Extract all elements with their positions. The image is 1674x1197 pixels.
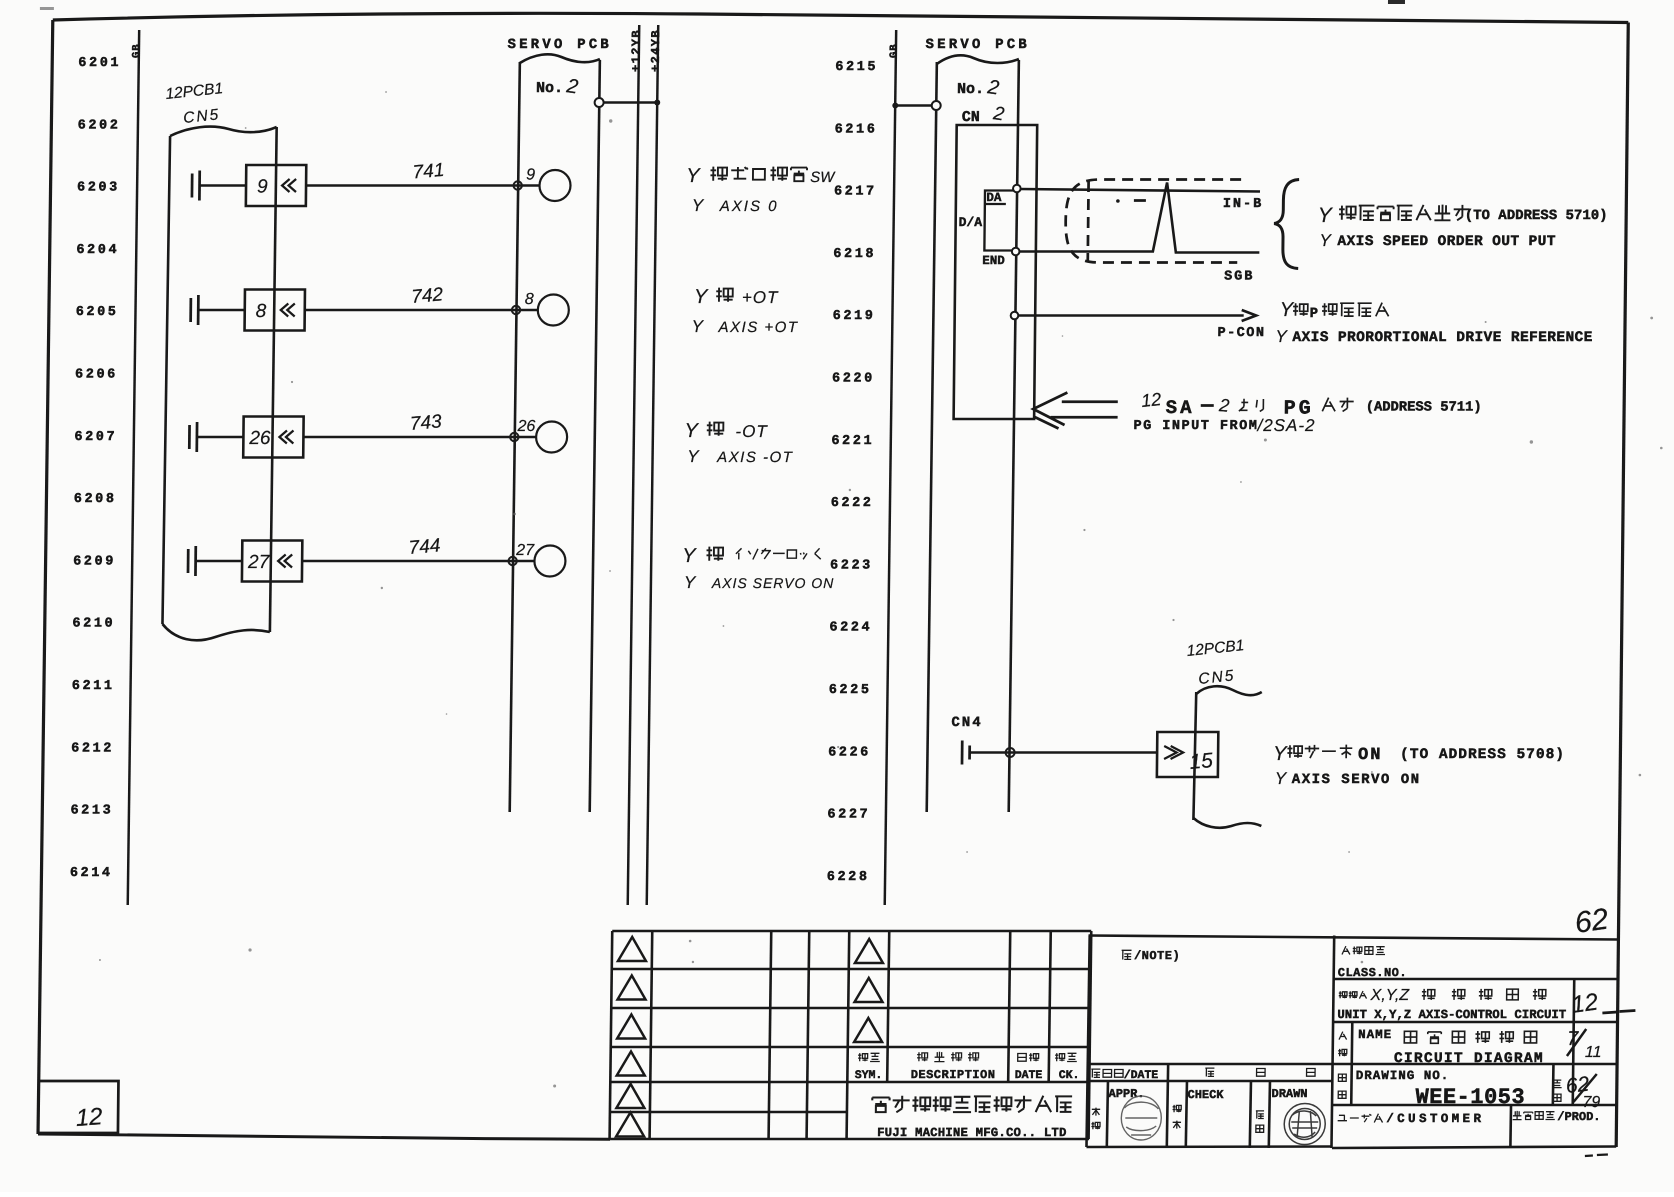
svg-text:SYM.: SYM. (855, 1069, 883, 1082)
svg-text:8: 8 (525, 291, 534, 308)
svg-text:(TO ADDRESS 5708): (TO ADDRESS 5708) (1400, 747, 1565, 763)
svg-text:6211: 6211 (72, 679, 115, 694)
svg-text:6227: 6227 (827, 808, 870, 823)
svg-text:6201: 6201 (78, 56, 121, 71)
svg-text:CN: CN (962, 109, 980, 126)
svg-text:744: 744 (408, 535, 441, 559)
svg-text:FUJI MACHINE MFG.CO.. LTD: FUJI MACHINE MFG.CO.. LTD (877, 1126, 1067, 1140)
svg-text:6215: 6215 (835, 60, 878, 75)
svg-text:6221: 6221 (831, 434, 874, 449)
svg-text:6213: 6213 (70, 804, 113, 819)
svg-text:12: 12 (1570, 988, 1600, 1018)
svg-text:Y: Y (1275, 769, 1288, 788)
svg-text:P: P (1310, 306, 1319, 322)
svg-text:6224: 6224 (829, 621, 872, 636)
svg-text:SERVO PCB: SERVO PCB (507, 37, 612, 53)
svg-text:27: 27 (247, 552, 271, 573)
svg-text:CIRCUIT DIAGRAM: CIRCUIT DIAGRAM (1394, 1051, 1544, 1067)
svg-text:8: 8 (256, 301, 267, 322)
svg-text:26: 26 (248, 428, 271, 449)
svg-text:27: 27 (515, 542, 535, 559)
svg-text:X,Y,Z: X,Y,Z (1369, 987, 1410, 1004)
svg-text:11: 11 (1585, 1044, 1602, 1061)
svg-text:Y: Y (686, 165, 701, 187)
svg-text:AXIS PRORORTIONAL DRIVE REFERE: AXIS PRORORTIONAL DRIVE REFERENCE (1292, 330, 1593, 346)
svg-text:/NOTE): /NOTE) (1134, 949, 1180, 963)
svg-text:GB: GB (888, 43, 900, 58)
svg-text:IN-B: IN-B (1223, 197, 1264, 212)
svg-text:Y: Y (682, 545, 697, 567)
svg-text:GB: GB (131, 43, 143, 58)
svg-text:742: 742 (411, 284, 445, 308)
svg-text:(TO ADDRESS 5710): (TO ADDRESS 5710) (1465, 208, 1608, 224)
svg-text:+24YB: +24YB (649, 29, 663, 72)
svg-text:Y: Y (684, 573, 697, 592)
svg-text:CLASS.NO.: CLASS.NO. (1338, 966, 1407, 980)
svg-text:6210: 6210 (72, 617, 115, 632)
svg-text:DATE: DATE (1015, 1069, 1043, 1082)
svg-text:NAME: NAME (1358, 1028, 1392, 1042)
svg-text:SERVO PCB: SERVO PCB (925, 37, 1030, 53)
svg-text:CN4: CN4 (951, 715, 982, 731)
svg-text:DRAWN: DRAWN (1271, 1087, 1307, 1101)
svg-text:6205: 6205 (76, 305, 119, 320)
svg-text:SW: SW (810, 169, 836, 186)
svg-text:62: 62 (1573, 903, 1611, 940)
svg-text:UNIT X,Y,Z AXIS-CONTROL CIRCUI: UNIT X,Y,Z AXIS-CONTROL CIRCUIT (1337, 1008, 1567, 1022)
svg-text:/PROD.: /PROD. (1557, 1110, 1600, 1124)
svg-text:2: 2 (1217, 395, 1230, 416)
svg-text:P-CON: P-CON (1217, 326, 1265, 341)
svg-text:DESCRIPTION: DESCRIPTION (911, 1068, 996, 1082)
svg-text:DRAWING NO.: DRAWING NO. (1356, 1069, 1450, 1083)
svg-text:6226: 6226 (828, 745, 871, 760)
svg-text:6202: 6202 (78, 118, 121, 133)
svg-text:+OT: +OT (742, 288, 779, 307)
svg-text:Y: Y (692, 196, 705, 215)
svg-text:SGB: SGB (1224, 270, 1254, 285)
svg-text:CK.: CK. (1059, 1069, 1080, 1082)
svg-text:ON: ON (1358, 746, 1383, 765)
svg-text:CHECK: CHECK (1187, 1088, 1224, 1102)
svg-text:6216: 6216 (835, 122, 878, 137)
svg-text:6212: 6212 (71, 741, 114, 756)
svg-text:26: 26 (516, 418, 535, 435)
svg-text:PG INPUT FROM: PG INPUT FROM (1133, 419, 1258, 434)
svg-text:6228: 6228 (827, 870, 870, 885)
svg-text:AXIS 0: AXIS 0 (719, 198, 779, 215)
svg-text:6218: 6218 (833, 247, 876, 262)
svg-text:Y: Y (1280, 299, 1295, 321)
svg-text:Y: Y (1319, 231, 1332, 250)
svg-text:Y: Y (694, 286, 709, 308)
svg-text:12: 12 (75, 1103, 103, 1132)
svg-text:79: 79 (1582, 1094, 1600, 1111)
svg-text:Y: Y (687, 447, 700, 466)
svg-text:15: 15 (1189, 749, 1214, 774)
svg-text:DA: DA (986, 191, 1002, 205)
svg-text:(ADDRESS 5711): (ADDRESS 5711) (1366, 400, 1482, 416)
svg-text:-OT: -OT (735, 422, 768, 441)
svg-text:/CUSTOMER: /CUSTOMER (1386, 1112, 1484, 1126)
svg-text:AXIS -OT: AXIS -OT (716, 449, 794, 466)
svg-text:SA: SA (1166, 397, 1195, 419)
svg-text:Y: Y (691, 317, 704, 336)
svg-text:6214: 6214 (70, 866, 113, 881)
svg-text:No.: No. (536, 80, 563, 97)
svg-text:6204: 6204 (76, 243, 119, 258)
svg-text:12: 12 (1140, 389, 1162, 411)
svg-text:WEE-1053: WEE-1053 (1415, 1085, 1525, 1110)
svg-text:741: 741 (412, 160, 445, 184)
svg-text:Y: Y (1275, 327, 1288, 346)
svg-text:6207: 6207 (74, 430, 117, 445)
svg-text:6223: 6223 (830, 558, 873, 573)
svg-text:/2SA-2: /2SA-2 (1256, 416, 1315, 435)
svg-text:6206: 6206 (75, 368, 118, 383)
svg-text:AXIS SERVO ON: AXIS SERVO ON (1292, 772, 1421, 788)
svg-text:743: 743 (409, 411, 443, 435)
svg-text:Y: Y (1273, 743, 1288, 765)
svg-text:AXIS SERVO ON: AXIS SERVO ON (711, 575, 835, 591)
svg-text:APPR.: APPR. (1108, 1087, 1144, 1101)
svg-text:Y: Y (684, 420, 699, 442)
svg-text:END: END (982, 254, 1005, 268)
svg-text:+12YB: +12YB (629, 29, 643, 72)
svg-text:6220: 6220 (832, 372, 875, 387)
svg-text:AXIS SPEED ORDER OUT PUT: AXIS SPEED ORDER OUT PUT (1337, 234, 1556, 250)
svg-text:/DATE: /DATE (1124, 1069, 1159, 1082)
svg-text:No.: No. (957, 81, 984, 98)
svg-text:AXIS +OT: AXIS +OT (717, 319, 798, 336)
svg-text:6225: 6225 (829, 683, 872, 698)
svg-text:6208: 6208 (74, 492, 117, 507)
svg-text:6217: 6217 (834, 185, 877, 200)
svg-text:Y: Y (1318, 204, 1334, 227)
svg-text:9: 9 (257, 177, 268, 198)
svg-text:6219: 6219 (833, 309, 876, 324)
svg-text:6209: 6209 (73, 554, 116, 569)
svg-text:9: 9 (526, 167, 535, 184)
svg-text:6222: 6222 (831, 496, 874, 511)
svg-text:D/A: D/A (959, 215, 983, 230)
svg-text:6203: 6203 (77, 181, 120, 196)
